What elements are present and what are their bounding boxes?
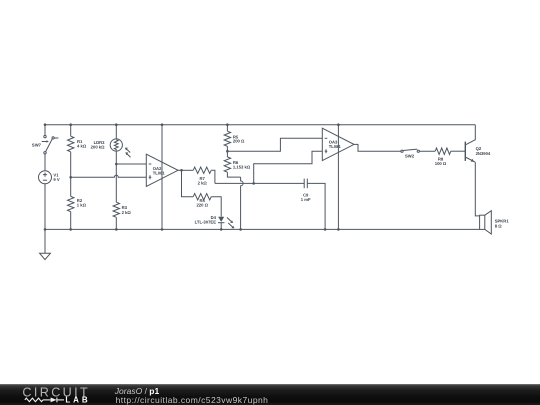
wire R6 to ground with hop over feedback wire (241, 177, 244, 229)
switch SW7 (42, 135, 59, 154)
node D R5/R6 divider (226, 150, 229, 153)
junction ground rail at OA3 V- (337, 228, 340, 231)
junction top rail at SW7 (44, 123, 47, 126)
wire node feedback to OA3 plus input (254, 151, 323, 183)
wire node LDR3/R3 to OA2 minus input (116, 163, 146, 165)
svg-text:200 kΩ: 200 kΩ (91, 144, 105, 149)
transistor Q2 (465, 125, 475, 163)
op-amp OA3 supply wires (337, 125, 339, 230)
wire C9 right to ground rail (307, 183, 325, 229)
voltage source V1 (39, 171, 52, 184)
svg-text:LAB: LAB (65, 395, 90, 404)
wire node R1R2 to OA2 plus input (hop over LDR wire) (71, 175, 147, 177)
svg-text:SW7: SW7 (32, 142, 41, 147)
wire V1 to ground rail (44, 184, 46, 230)
wire battery branch top (44, 125, 46, 136)
svg-text:220 Ω: 220 Ω (196, 203, 208, 208)
wire bottom ground rail (45, 228, 480, 230)
resistor R2 (68, 177, 74, 229)
op-amp OA3 (322, 128, 354, 160)
node A R1/R2/V+ input (69, 176, 72, 179)
svg-text:TL081: TL081 (153, 170, 165, 175)
svg-text:1 kΩ: 1 kΩ (77, 203, 86, 208)
footer bar (0, 384, 540, 405)
svg-text:2 kΩ: 2 kΩ (122, 210, 131, 215)
junction ground rail at C9 branch (324, 228, 327, 231)
junction top rail at OA2 V+ (161, 123, 164, 126)
svg-text:LTL-307EE: LTL-307EE (195, 220, 217, 225)
junction top rail at R5 (226, 123, 229, 126)
svg-text:9 V: 9 V (53, 177, 59, 182)
junction ground rail at R2 (69, 228, 72, 231)
wire LDR3 to node (115, 151, 117, 164)
wire feedback row to C9 left (215, 182, 304, 184)
wire R5/R6 node to OA3 minus input (227, 138, 322, 151)
junction top rail at LDR3 (115, 123, 118, 126)
wire SW7 to V1 (44, 154, 46, 171)
svg-text:8 Ω: 8 Ω (495, 223, 502, 228)
component labels (32, 134, 509, 228)
junction ground rail at V1 (44, 228, 47, 231)
wire SW2 to R8 (419, 150, 435, 152)
svg-text:1 mF: 1 mF (301, 197, 311, 202)
node B LDR3/R3/V- input (115, 163, 118, 166)
svg-text:100 Ω: 100 Ω (435, 161, 447, 166)
svg-text:4 kΩ: 4 kΩ (77, 143, 86, 148)
wire OA3 output to SW2 (354, 144, 401, 151)
capacitor C9 (304, 179, 307, 189)
ground (40, 229, 51, 259)
op-amp OA2 supply wires (161, 125, 163, 230)
svg-text:SW2: SW2 (405, 153, 414, 158)
photoresistor LDR3 (110, 125, 130, 158)
resistor R5 (224, 125, 230, 152)
LED D4 (218, 217, 234, 230)
op-amp OA2 (146, 154, 178, 186)
node C OA2 output (180, 169, 183, 172)
junction top rail at R1 (69, 123, 72, 126)
junction ground rail at R6 branch (239, 228, 242, 231)
wire OA2 output node (178, 169, 182, 171)
junction ground rail at R3 (115, 228, 118, 231)
resistor R8 (435, 148, 465, 154)
svg-text:200 Ω: 200 Ω (233, 139, 245, 144)
resistor R1 (68, 125, 74, 178)
resistor R7 (182, 167, 215, 183)
resistor R6 (224, 151, 240, 177)
junction top rail at OA3 V+ (337, 123, 340, 126)
resistor R3 (113, 164, 119, 229)
svg-text:1,153 kΩ: 1,153 kΩ (233, 165, 250, 170)
footer url text (116, 395, 269, 405)
svg-text:TL081: TL081 (329, 144, 341, 149)
switch SW2 (401, 149, 420, 152)
svg-text:R3: R3 (122, 205, 128, 210)
footer title text (115, 386, 159, 396)
resistor R4 (182, 170, 222, 216)
speaker SPKR1 (480, 211, 492, 234)
svg-text:2N3904: 2N3904 (476, 151, 491, 156)
node E feedback/C9 (252, 182, 255, 185)
CircuitLab logo (0, 384, 110, 405)
junction ground rail at OA2 V- (161, 228, 164, 231)
wire Q2 emitter to speaker (475, 162, 479, 216)
wire top supply rail (45, 124, 475, 126)
junction ground rail at D4 (220, 228, 223, 231)
svg-text:2 kΩ: 2 kΩ (198, 181, 207, 186)
